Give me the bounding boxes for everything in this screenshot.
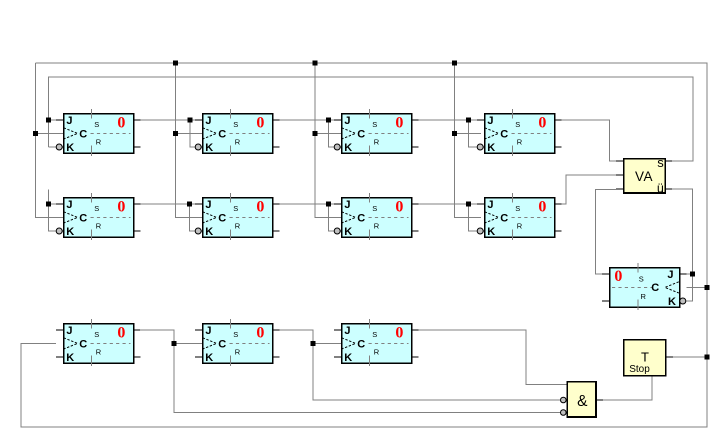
wire clock drop col4 to C of FF4/FF8 xyxy=(455,63,481,218)
wire FF8 Q to VA input b xyxy=(555,175,617,204)
wire FF3->FF4 drop to K bubble xyxy=(469,120,478,147)
JK flip-flop U9 xyxy=(56,319,141,366)
node col4 C branch xyxy=(452,131,457,136)
wire branch to K bubble of FF1 xyxy=(49,146,57,148)
wire branch to J of FF1 xyxy=(49,119,63,121)
node U11 C branch xyxy=(311,341,316,346)
wire VA u output to J/K of U12 xyxy=(672,189,693,301)
JK flip-flop U8 xyxy=(477,193,562,240)
wire FF1->FF2 drop to K bubble xyxy=(190,120,196,147)
wire timer T output to clock rail xyxy=(672,356,707,358)
wire clock branch to C of FF1 xyxy=(36,133,63,135)
node clock bus / col2 xyxy=(173,61,178,66)
node FF4 J branch xyxy=(466,118,471,123)
node clock bus / col4 xyxy=(452,61,457,66)
wire FF7->FF8 Q to J xyxy=(412,203,485,205)
node FF6 J branch xyxy=(187,202,192,207)
wire clock branch to C of U12 xyxy=(687,287,708,289)
wire FF7->FF8 drop to K bubble xyxy=(469,204,478,231)
full adder VA U13 xyxy=(616,155,672,195)
inverter bubble K input FF4 xyxy=(477,144,483,150)
inverter bubble K input FF1 xyxy=(56,144,62,150)
JK flip-flop U2 xyxy=(195,109,280,156)
wire branch to J of U12 xyxy=(687,273,693,275)
wire FF3->FF4 Q to J xyxy=(412,119,485,121)
svg-text:T: T xyxy=(641,349,649,364)
JK flip-flop U12 (mirrored) xyxy=(602,263,687,310)
JK flip-flop U5 xyxy=(56,193,141,240)
wire FF2->FF3 Q to J xyxy=(273,119,342,121)
wire clock branch to C of FF3 xyxy=(315,133,341,135)
node clock bus / col3 xyxy=(312,61,317,66)
svg-text:VA: VA xyxy=(635,169,653,184)
wire clock drop col1 x35.6 to C of FF1/FF5 xyxy=(36,63,63,218)
AND gate U15 xyxy=(567,382,603,417)
node T output junction xyxy=(705,355,710,360)
svg-text:ü: ü xyxy=(657,181,664,195)
node FF1 J branch xyxy=(46,118,51,123)
inverter bubble K input FF5 xyxy=(56,228,62,234)
wire FF1->FF2 Q to J xyxy=(134,119,203,121)
wire U9 Q output to C of U10 xyxy=(141,330,202,344)
wire FF4 Q to VA input a xyxy=(555,120,617,161)
wire branch to J of FF5 xyxy=(49,203,63,205)
timer T (Stop) U14 xyxy=(624,340,673,376)
inverter bubble AND input 3 xyxy=(561,410,567,416)
node FF7 J branch xyxy=(326,202,331,207)
wire FF5->FF6 Q to J xyxy=(134,203,203,205)
wire clock drop col2 to C of FF2/FF6 xyxy=(176,63,202,218)
JK flip-flop U11 xyxy=(334,319,419,366)
inverter bubble K input U12 xyxy=(680,298,686,304)
wire clock branch to C of FF2 xyxy=(176,133,202,135)
wire clock drop col3 to C of FF3/FF7 xyxy=(315,63,341,218)
wire U12 Q output to VA carry input xyxy=(596,190,617,275)
node col3 C branch xyxy=(312,131,317,136)
JK flip-flop U3 xyxy=(334,109,419,156)
JK flip-flop U4 xyxy=(477,109,562,156)
wire clock branch to C of FF4 xyxy=(455,133,481,135)
node col1 C branch xyxy=(33,131,38,136)
svg-text:&: & xyxy=(577,393,588,410)
inverter bubble AND input 2 xyxy=(561,397,567,403)
wire AND output to T input xyxy=(596,376,652,401)
node FF2 J branch xyxy=(188,118,193,123)
wire U11 Q output to AND input 1 xyxy=(412,330,568,384)
node col2 C branch xyxy=(173,131,178,136)
svg-text:s: s xyxy=(657,155,664,170)
wire U10 Q output to C of U11 xyxy=(272,330,342,344)
inverter bubble K input FF7 xyxy=(334,228,340,234)
wire FF6->FF7 drop to K bubble xyxy=(329,204,335,231)
svg-text:Stop: Stop xyxy=(629,364,650,375)
wire FF6->FF7 Q to J xyxy=(273,203,342,205)
inverter bubble K input FF8 xyxy=(477,228,483,234)
wire FF5 J/K stub rail x48.6 xyxy=(49,189,57,231)
inverter bubble K input FF6 xyxy=(195,228,201,234)
JK flip-flop U7 xyxy=(334,193,419,240)
wire branch to AND input 3 xyxy=(174,344,561,413)
node FF3 J branch xyxy=(326,118,331,123)
JK flip-flop U1 xyxy=(56,109,141,156)
node U12 C branch xyxy=(705,285,710,290)
node FF5 J branch xyxy=(46,202,51,207)
JK flip-flop U10 xyxy=(195,319,280,366)
node U12 J branch xyxy=(690,272,695,277)
JK flip-flop U6 xyxy=(195,193,280,240)
wire VA s output rail y77 to J/K of FF1 xyxy=(49,77,693,161)
inverter bubble K input FF2 xyxy=(195,144,201,150)
node FF8 J branch xyxy=(466,202,471,207)
node U10 C branch xyxy=(172,341,177,346)
wire branch to AND input 2 xyxy=(313,344,561,401)
wire FF5->FF6 drop to K bubble xyxy=(190,204,196,231)
inverter bubble K input FF3 xyxy=(334,144,340,150)
wire FF2->FF3 drop to K bubble xyxy=(329,120,335,147)
